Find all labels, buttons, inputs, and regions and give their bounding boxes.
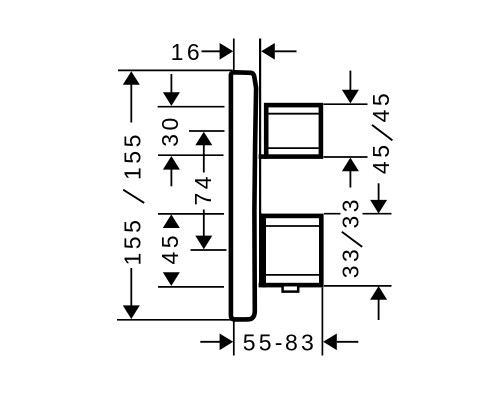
dim 155 bottom line — [130, 268, 132, 306]
dim 30 bottom line — [170, 169, 172, 187]
ext line bottom knob bottom right — [324, 285, 392, 287]
svg-text:45: 45 — [368, 90, 394, 123]
ext line top knob center — [189, 130, 225, 132]
ext line top knob bottom right — [324, 156, 368, 158]
dim 33-33 bottom arrow — [370, 286, 387, 300]
top knob inner line upper — [269, 113, 319, 115]
bottom knob body — [264, 216, 322, 285]
top knob inner line lower — [269, 147, 319, 149]
ext line bottom knob top right a — [324, 213, 341, 215]
svg-text:55-: 55- — [243, 329, 286, 355]
ext line bottom knob top left — [158, 213, 224, 215]
ext line 16 left vertical — [233, 39, 235, 71]
bottom sleeve line — [259, 213, 262, 285]
dim 16 right arrow — [261, 43, 275, 60]
dim 155 top line — [130, 84, 132, 123]
bottom knob bottom edge extension — [259, 283, 266, 288]
label 33/33 slash — [342, 232, 362, 247]
dim 74 bottom line — [203, 210, 205, 237]
dim 74 top line — [203, 145, 205, 173]
ext line bottom knob center — [191, 249, 227, 251]
svg-text:30: 30 — [157, 114, 183, 147]
dim 45-45 top line — [349, 71, 351, 91]
top knob bottom edge extension — [259, 154, 267, 159]
dim 55-83 left arrow — [220, 334, 234, 351]
svg-text:74: 74 — [190, 173, 216, 206]
dim 74 bottom arrow — [195, 236, 212, 250]
svg-text:155: 155 — [120, 131, 146, 180]
dim 30 bottom arrow — [163, 156, 180, 170]
valve sleeve line — [259, 39, 261, 214]
top knob body — [266, 105, 321, 157]
dim 16 left arrow — [220, 43, 234, 60]
dim 45-45 bottom line — [349, 170, 351, 187]
safety stop tab — [283, 285, 299, 291]
svg-text:45: 45 — [368, 142, 394, 175]
ext line plate bottom — [117, 319, 234, 321]
dim 33-33 bottom line — [378, 299, 380, 320]
ext line 55-83 right vertical — [321, 288, 323, 356]
dim 30 top arrow — [163, 92, 180, 106]
svg-text:16: 16 — [171, 39, 204, 65]
label 155/155 slash — [123, 190, 144, 203]
ext line top knob top right — [324, 103, 368, 105]
svg-text:83: 83 — [285, 329, 317, 355]
svg-text:33: 33 — [338, 196, 364, 229]
svg-text:155: 155 — [120, 217, 146, 266]
dim 55-83 right tail — [337, 341, 359, 343]
dim 155 top arrow — [123, 71, 140, 85]
ext line 55-83 left vertical — [233, 321, 235, 356]
ext line top knob bottom left — [158, 154, 224, 156]
dim 45-45 top arrow — [342, 90, 359, 104]
label 45/45 slash — [372, 125, 392, 140]
wall plate (side profile) — [231, 72, 256, 319]
dim 45 bottom arrow — [163, 272, 180, 286]
dim 55-83 right arrow — [323, 334, 337, 351]
svg-text:33: 33 — [338, 246, 364, 279]
dim 16 right tail — [275, 50, 297, 52]
dim 55-83 left tail — [200, 341, 220, 343]
dim 33-33 top line — [378, 183, 380, 200]
svg-text:45: 45 — [157, 232, 183, 265]
ext line plate top — [118, 69, 233, 71]
dim 45-45 bottom arrow — [342, 158, 359, 172]
dim 33-33 top arrow — [370, 200, 387, 214]
dim 155 bottom arrow — [123, 305, 140, 319]
dim 16 left tail — [202, 50, 221, 52]
ext line top knob top left — [158, 106, 225, 108]
bottom knob inner line lower — [266, 274, 319, 276]
dim 74 top arrow — [195, 132, 212, 146]
dim 30 top line — [170, 74, 172, 93]
ext line bottom knob top right b — [363, 213, 392, 215]
bottom knob inner line upper — [266, 225, 319, 227]
dim 45 top arrow — [163, 214, 180, 228]
ext line bottom knob bottom left — [158, 286, 224, 288]
